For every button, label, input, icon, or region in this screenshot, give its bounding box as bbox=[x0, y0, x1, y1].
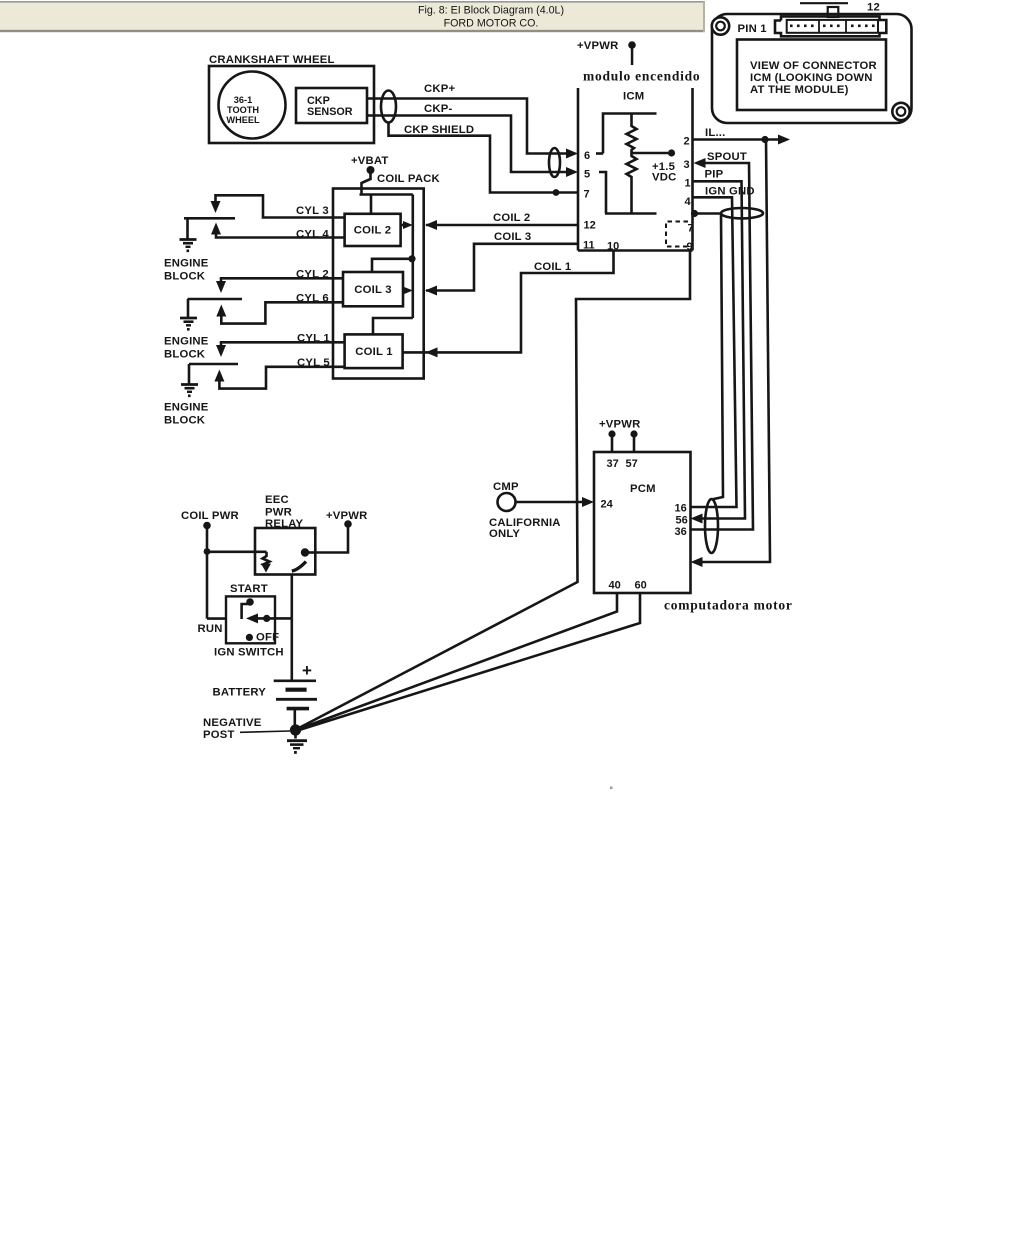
wire PCM pin 60 to battery negative bbox=[296, 593, 640, 731]
junction dot to relay coil bbox=[204, 548, 211, 555]
svg-text:36-1: 36-1 bbox=[234, 95, 252, 105]
START contact dot and jog bbox=[246, 598, 254, 606]
svg-text:CKP+: CKP+ bbox=[424, 83, 455, 95]
COIL PWR terminal dot and wire down bbox=[203, 522, 211, 530]
svg-text:COIL 1: COIL 1 bbox=[355, 346, 392, 358]
spark gap pair 2: CYL 6 wire bbox=[221, 302, 343, 323]
36-1 tooth wheel circle bbox=[219, 72, 286, 139]
svg-text:36: 36 bbox=[675, 526, 687, 538]
coil 2 box bbox=[345, 214, 401, 246]
engine block ground 2 bbox=[187, 299, 190, 318]
connector strip inner cavity bbox=[787, 20, 878, 33]
arrowhead COIL 3 bbox=[425, 286, 437, 296]
crankshaft wheel box bbox=[209, 66, 374, 143]
switch wiper line with dot and arrow bbox=[258, 617, 292, 620]
svg-text:7: 7 bbox=[688, 223, 694, 235]
coil pack inner bus bbox=[411, 195, 414, 319]
bundle ellipse below ICM bbox=[721, 208, 763, 218]
OFF contact dot bbox=[246, 634, 253, 641]
svg-text:ENGINE: ENGINE bbox=[164, 258, 209, 270]
spark gap pair 3: CYL 5 wire bbox=[219, 367, 344, 389]
wire COIL 1 from ICM pin 10 bbox=[403, 251, 614, 353]
svg-text:7: 7 bbox=[584, 189, 590, 201]
svg-text:1: 1 bbox=[685, 178, 691, 190]
coil 2 drive stub with arrow to bus bbox=[401, 224, 405, 227]
svg-text:12: 12 bbox=[867, 2, 880, 14]
connector top edge mark bbox=[800, 2, 848, 4]
svg-text:modulo encendido: modulo encendido bbox=[583, 69, 700, 84]
svg-text:24: 24 bbox=[601, 499, 614, 511]
spark gap pair 1: electrode bar bbox=[184, 217, 235, 220]
connector strip dividers bbox=[818, 20, 820, 33]
svg-text:12: 12 bbox=[584, 220, 596, 232]
engine block ground 3 bbox=[188, 364, 191, 385]
svg-text:IGN GND: IGN GND bbox=[705, 186, 755, 198]
ICM internal pin5 stub and bottom rail bbox=[599, 172, 606, 214]
spark gap pair 1: CYL 4 wire bbox=[216, 233, 345, 238]
svg-text:FORD MOTOR CO.: FORD MOTOR CO. bbox=[444, 18, 539, 30]
svg-text:COIL PACK: COIL PACK bbox=[377, 173, 441, 185]
svg-text:RELAY: RELAY bbox=[265, 518, 304, 530]
svg-text:6: 6 bbox=[584, 150, 590, 162]
mounting hole top-left bbox=[712, 17, 729, 34]
svg-text:BLOCK: BLOCK bbox=[164, 415, 206, 427]
svg-text:CYL 6: CYL 6 bbox=[296, 293, 329, 305]
wire IGN GND ICM pin4 to PCM pin 16 bbox=[691, 197, 737, 507]
twisted pair ellipse at ICM bbox=[549, 148, 560, 177]
ICM pin4 shield junction dot and drain wire bbox=[691, 210, 698, 217]
svg-text:CYL 3: CYL 3 bbox=[296, 205, 329, 217]
negative post junction dot bbox=[290, 724, 301, 735]
bundle ellipse at PCM bbox=[705, 499, 718, 553]
spark gap pair 3: CYL 1 wire bbox=[221, 342, 345, 346]
EEC PWR RELAY box bbox=[255, 528, 315, 575]
svg-text:11: 11 bbox=[583, 240, 595, 252]
svg-text:BATTERY: BATTERY bbox=[213, 687, 267, 699]
connector strip outline bbox=[775, 16, 886, 36]
svg-text:9: 9 bbox=[687, 241, 693, 253]
wire PIP ICM pin1 to PCM pin 56 bbox=[693, 181, 746, 518]
svg-text:COIL 2: COIL 2 bbox=[493, 212, 530, 224]
ICM internal top rail bbox=[603, 114, 657, 154]
spark gap pair 3: electrode bar bbox=[189, 363, 238, 366]
wire COIL 3 from ICM pin 11 bbox=[426, 244, 578, 291]
arrowhead COIL 2 bbox=[425, 220, 437, 230]
svg-text:+VBAT: +VBAT bbox=[351, 155, 389, 167]
twisted pair ellipse at sensor bbox=[381, 91, 396, 123]
battery negative stem bbox=[293, 709, 296, 726]
svg-text:37: 37 bbox=[607, 458, 619, 470]
svg-text:Fig. 8: EI Block Diagram (4.0L: Fig. 8: EI Block Diagram (4.0L) bbox=[418, 5, 564, 17]
svg-text:NEGATIVE: NEGATIVE bbox=[203, 717, 262, 729]
ground at negative post bbox=[294, 730, 297, 739]
svg-text:+VPWR: +VPWR bbox=[577, 40, 619, 52]
relay output down to ignition switch line bbox=[290, 575, 293, 619]
svg-text:TOOTH: TOOTH bbox=[227, 105, 259, 115]
svg-text:CKP SHIELD: CKP SHIELD bbox=[404, 124, 474, 136]
+VPWR relay dot and wire bbox=[344, 520, 352, 528]
wire CKP- sensor to bend bbox=[367, 116, 568, 173]
svg-text:16: 16 bbox=[675, 503, 687, 515]
svg-text:SPOUT: SPOUT bbox=[707, 151, 747, 163]
wire SPOUT to PCM pin 36 bbox=[691, 163, 754, 530]
connector pins bbox=[790, 25, 875, 28]
mounting hole bottom-right bbox=[892, 103, 909, 120]
svg-text:COIL PWR: COIL PWR bbox=[181, 510, 239, 522]
arrowhead COIL 1 bbox=[426, 347, 438, 357]
negative post label leader line bbox=[240, 731, 290, 732]
svg-text:ENGINE: ENGINE bbox=[164, 402, 209, 414]
shield junction dot bbox=[553, 189, 560, 196]
svg-text:START: START bbox=[230, 583, 268, 595]
svg-text:4: 4 bbox=[685, 196, 692, 208]
svg-text:ENGINE: ENGINE bbox=[164, 336, 209, 348]
svg-text:ICM (LOOKING DOWN: ICM (LOOKING DOWN bbox=[750, 72, 873, 84]
ICM dashed connector box bbox=[666, 222, 688, 247]
svg-text:3: 3 bbox=[684, 159, 690, 171]
svg-text:RUN: RUN bbox=[198, 623, 223, 635]
svg-text:CYL 4: CYL 4 bbox=[296, 229, 329, 241]
wire PCM pin 40 to battery negative bbox=[296, 593, 617, 730]
wire CMP to PCM pin 24 bbox=[516, 501, 584, 504]
wire ICM pin 2 IL with dot and right arrow bbox=[693, 138, 780, 141]
PCM box bbox=[594, 452, 691, 593]
svg-text:CYL 1: CYL 1 bbox=[297, 333, 330, 345]
svg-text:SENSOR: SENSOR bbox=[307, 106, 353, 118]
wire CKP shield bbox=[389, 123, 579, 193]
resistor mid tap to +1.5VDC node bbox=[632, 152, 669, 155]
svg-text:computadora motor: computadora motor bbox=[664, 598, 793, 613]
svg-text:57: 57 bbox=[626, 458, 638, 470]
wire +VPWR stem at ICM bbox=[628, 41, 636, 49]
CMP circle bbox=[498, 493, 516, 511]
wire COIL 2 from ICM pin 12 bbox=[426, 224, 578, 227]
svg-text:CKP-: CKP- bbox=[424, 103, 452, 115]
arrow into ICM pin 6 bbox=[566, 149, 578, 159]
svg-text:CMP: CMP bbox=[493, 481, 519, 493]
svg-text:PIP: PIP bbox=[705, 169, 724, 181]
connector key tab bbox=[828, 7, 839, 17]
coil 1 box bbox=[345, 334, 403, 368]
IGN SWITCH box bbox=[226, 596, 275, 643]
arrow into ICM pin 5 bbox=[566, 167, 578, 177]
svg-text:WHEEL: WHEEL bbox=[226, 115, 260, 125]
bus junction dot to coil 3 bbox=[408, 255, 415, 262]
battery top wire bbox=[290, 618, 293, 680]
svg-text:IL...: IL... bbox=[705, 127, 725, 139]
svg-text:BLOCK: BLOCK bbox=[164, 271, 206, 283]
coil pack outer box bbox=[333, 189, 424, 379]
relay switch arm bbox=[292, 562, 306, 572]
svg-text:VIEW OF CONNECTOR: VIEW OF CONNECTOR bbox=[750, 60, 877, 72]
stray scan dot bbox=[610, 787, 613, 790]
svg-text:POST: POST bbox=[203, 729, 235, 741]
relay coil element bbox=[263, 552, 270, 567]
wire ICM pin 9 down-left-down to battery negative bbox=[296, 251, 690, 730]
svg-text:PWR: PWR bbox=[265, 507, 292, 519]
svg-text:COIL 2: COIL 2 bbox=[354, 225, 391, 237]
svg-text:BLOCK: BLOCK bbox=[164, 349, 206, 361]
svg-text:40: 40 bbox=[609, 580, 621, 592]
svg-text:CYL 5: CYL 5 bbox=[297, 357, 330, 369]
svg-text:+: + bbox=[302, 661, 312, 680]
ICM box (left, right, bottom edges) bbox=[577, 88, 580, 251]
relay contact dot and stub bbox=[301, 548, 309, 556]
svg-text:OFF: OFF bbox=[256, 632, 279, 644]
coil 3 box bbox=[343, 272, 403, 306]
svg-text:COIL 3: COIL 3 bbox=[494, 231, 531, 243]
svg-text:CYL 2: CYL 2 bbox=[296, 269, 329, 281]
label plate bbox=[737, 40, 886, 111]
svg-text:IGN SWITCH: IGN SWITCH bbox=[214, 647, 284, 659]
battery plates bbox=[274, 679, 316, 682]
coil 3 drive stub with arrow to bus bbox=[403, 289, 407, 292]
svg-text:COIL 3: COIL 3 bbox=[354, 284, 391, 296]
header bar bbox=[0, 1, 705, 32]
svg-text:VDC: VDC bbox=[652, 172, 676, 184]
spark gap pair 2: electrode bar bbox=[188, 298, 243, 301]
+VBAT dot and entry wire bbox=[367, 166, 375, 174]
wire CKP+ sensor to bend bbox=[367, 99, 568, 154]
svg-text:CRANKSHAFT WHEEL: CRANKSHAFT WHEEL bbox=[209, 54, 335, 66]
svg-text:56: 56 bbox=[676, 515, 688, 527]
svg-text:AT THE MODULE): AT THE MODULE) bbox=[750, 84, 849, 96]
svg-text:+VPWR: +VPWR bbox=[599, 419, 641, 431]
spark gap pair 2: CYL 2 wire bbox=[221, 278, 343, 282]
svg-text:PIN 1: PIN 1 bbox=[738, 23, 767, 35]
arrow into ICM pin 3 SPOUT bbox=[694, 158, 706, 168]
svg-text:ONLY: ONLY bbox=[489, 528, 520, 540]
svg-text:EEC: EEC bbox=[265, 494, 289, 506]
coil 2 +V feed from rail bbox=[370, 195, 373, 214]
svg-text:10: 10 bbox=[607, 241, 619, 253]
svg-text:PCM: PCM bbox=[630, 483, 656, 495]
wire pin2 down to PCM right arrow bbox=[702, 140, 770, 563]
+VBAT distribution rail bbox=[360, 193, 413, 196]
svg-text:2: 2 bbox=[684, 136, 690, 148]
+VPWR dots and stems at PCM bbox=[608, 430, 615, 437]
ICM internal pin6 stub bbox=[596, 152, 603, 155]
engine block ground 1 bbox=[186, 218, 189, 239]
svg-text:60: 60 bbox=[635, 580, 647, 592]
bus bottom to coil 1 top bbox=[373, 318, 413, 334]
ICM internal resistor bbox=[627, 114, 637, 214]
CKP sensor box bbox=[296, 88, 367, 123]
svg-text:COIL 1: COIL 1 bbox=[534, 261, 571, 273]
svg-text:5: 5 bbox=[584, 169, 590, 181]
svg-text:+VPWR: +VPWR bbox=[326, 510, 368, 522]
ICM connector view outer case bbox=[712, 14, 912, 123]
spark gap pair 1: CYL 3 wire bbox=[216, 195, 345, 217]
RUN wire from COIL PWR into switch bbox=[207, 617, 226, 620]
svg-text:ICM: ICM bbox=[623, 91, 644, 103]
